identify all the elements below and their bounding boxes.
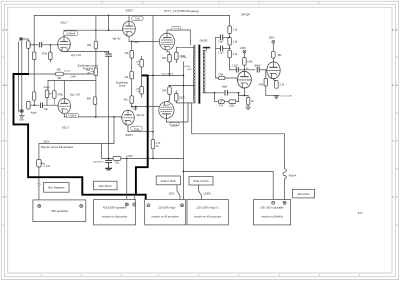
wire B+ to box4 left terminal bbox=[183, 171, 273, 201]
frame zone letters bbox=[2, 28, 398, 198]
svg-text:262V: 262V bbox=[134, 42, 140, 44]
wire to V4a anode node bbox=[239, 69, 255, 71]
svg-text:montée en 40 secondes: montée en 40 secondes bbox=[194, 215, 222, 219]
svg-text:475k: 475k bbox=[42, 53, 48, 56]
resistor R 90k on column bbox=[130, 50, 134, 58]
svg-text:24N2P: 24N2P bbox=[241, 13, 250, 17]
node connector marker bbox=[38, 183, 40, 185]
current label 0.56mA V1a bbox=[64, 31, 78, 36]
ground input2 bbox=[19, 116, 24, 118]
svg-text:v.carte C4M: v.carte C4M bbox=[280, 95, 292, 98]
svg-text:450 &500V ajustable: 450 &500V ajustable bbox=[103, 207, 127, 210]
node junction x95.7 on cathode row bbox=[95, 116, 97, 118]
svg-text:Push-Pull: Push-Pull bbox=[83, 68, 94, 71]
svg-text:475k: 475k bbox=[57, 94, 63, 97]
svg-text:5µF: 5µF bbox=[44, 109, 49, 111]
capacitor 680pF bbox=[257, 68, 259, 73]
svg-text:10R: 10R bbox=[162, 57, 167, 60]
svg-text:7mA: 7mA bbox=[134, 128, 139, 131]
svg-text:97A: 97A bbox=[358, 211, 363, 215]
thick wire highlighted path right branch bbox=[136, 75, 148, 194]
svg-text:0.56mA: 0.56mA bbox=[66, 32, 75, 35]
transformer T1 primary winding bbox=[193, 45, 195, 103]
svg-text:220 à 290V régul (-): 220 à 290V régul (-) bbox=[196, 207, 218, 210]
wire x215.7 compensation bbox=[215, 37, 217, 78]
wire PSU B+ center tap x183.4 bbox=[182, 62, 184, 199]
terminal box4 minus bbox=[272, 201, 275, 204]
wire secondary top to ground bbox=[203, 48, 206, 51]
wire 200R bottom leads bbox=[176, 91, 188, 103]
potentiometer P-in2 bbox=[27, 101, 31, 109]
svg-text:Polar K Push: Polar K Push bbox=[161, 179, 177, 183]
frame zone ticks bottom bbox=[41, 273, 360, 277]
resistor R 66k paraphase divider bbox=[93, 97, 97, 105]
tube V1a 6SL7 top triode bbox=[58, 37, 71, 52]
resistor R 65k anode load V1a bbox=[94, 41, 98, 49]
svg-text:206V: 206V bbox=[240, 47, 246, 50]
wire chain bottom to coupling row y69.8 bbox=[230, 69, 236, 71]
node junction anode rail / 65k column bbox=[95, 29, 97, 31]
terminal -45V box left bbox=[38, 204, 41, 207]
svg-text:475k: 475k bbox=[258, 83, 264, 86]
potentiometer Augm P1 bbox=[45, 90, 49, 98]
svg-text:6SL7: 6SL7 bbox=[62, 125, 69, 129]
wire bus y74 choke row bbox=[28, 73, 95, 75]
wire C10uF down to +470V rail bbox=[108, 57, 110, 159]
svg-text:27pF: 27pF bbox=[218, 41, 224, 43]
svg-text:C4M: C4M bbox=[71, 76, 76, 78]
svg-text:400mA: 400mA bbox=[289, 175, 297, 178]
resistor 2.7k 7W bbox=[151, 140, 155, 149]
node junction x34 on grid row bbox=[33, 44, 35, 46]
resistor 1.1k chain 1 bbox=[228, 26, 232, 34]
terminal box2 minus bbox=[147, 204, 150, 207]
ground chassis secondary bbox=[204, 47, 210, 49]
wire x38.9 down to pot 47k bbox=[38, 144, 40, 160]
resistor 470k grid V4a bbox=[219, 76, 226, 79]
wire rail to V2a grid bbox=[96, 29, 123, 31]
svg-text:66pF: 66pF bbox=[222, 87, 228, 89]
svg-text:7w: 7w bbox=[136, 64, 139, 66]
svg-text:10R: 10R bbox=[162, 90, 167, 93]
resistor Rd on x34 column lower bbox=[32, 92, 36, 100]
frame zone ticks left bbox=[1, 57, 4, 225]
wire screen mid y75.4 bbox=[148, 75, 195, 85]
svg-text:6SL7: 6SL7 bbox=[61, 21, 68, 25]
capacitor C-in2 coupling bbox=[40, 103, 42, 108]
wire long vertical x34.2 from top rail bbox=[33, 15, 35, 105]
wire x108.5 rail drop bbox=[108, 15, 110, 30]
resistor 200R screen top bbox=[175, 52, 179, 60]
potentiometer 4.7k bbox=[218, 100, 224, 104]
node chain junctions bbox=[229, 36, 231, 38]
potentiometer P2 80k equilibrage bbox=[94, 68, 98, 76]
tube V4b 24N2P right bbox=[267, 62, 281, 79]
svg-text:7w: 7w bbox=[136, 91, 139, 93]
capacitor 27pF lower bbox=[216, 47, 230, 49]
wire x95.9 column bbox=[95, 15, 97, 117]
svg-text:252V: 252V bbox=[132, 108, 138, 110]
wire primary tap to PSU x191.7 bbox=[192, 103, 285, 134]
node junction x131.7 y41.4 bbox=[131, 41, 133, 43]
svg-text:1.2µF: 1.2µF bbox=[232, 66, 239, 68]
box Alim Driver bbox=[93, 181, 117, 190]
wire 47k down to -45V box bbox=[38, 167, 40, 204]
node junction x50 on grid row bbox=[49, 44, 51, 46]
svg-text:100k: 100k bbox=[247, 60, 253, 63]
wire 10R bottom leads bbox=[167, 86, 170, 102]
wire cathode V1b row y116.9 bbox=[64, 114, 121, 117]
transformer T1 core bbox=[198, 45, 200, 104]
transformer T1 secondary winding bbox=[203, 50, 205, 93]
svg-text:7mA: 7mA bbox=[135, 18, 140, 21]
svg-text:220-290V régul: 220-290V régul bbox=[158, 207, 176, 210]
resistor 10R bottom bbox=[168, 87, 172, 95]
box -45V Ajustable bbox=[33, 200, 86, 222]
wire +470V rail y158.4 bbox=[102, 157, 184, 159]
wire grid row V1b y105.2 bbox=[30, 104, 57, 106]
wire 250V to 68k bbox=[272, 43, 274, 51]
current label 7mA V2b bbox=[131, 126, 143, 131]
svg-text:-45V Ajustable: -45V Ajustable bbox=[50, 209, 68, 213]
svg-text:1µF450Vdc: 1µF450Vdc bbox=[93, 161, 103, 163]
svg-text:7w: 7w bbox=[156, 145, 159, 148]
wire anode V1a to rail y29.7 bbox=[64, 30, 96, 36]
resistor R 475k V1b bbox=[53, 91, 57, 99]
box Polar K Push 2 bbox=[189, 177, 213, 185]
wire anode KT77b to transformer bottom bbox=[166, 103, 195, 122]
wire input1 to pot P-in1 bbox=[22, 39, 28, 41]
box PSU 220-290V regul bbox=[145, 200, 186, 225]
wire anode V1b up and left to x48 bbox=[48, 81, 96, 99]
svg-text:2.2k: 2.2k bbox=[280, 83, 285, 86]
svg-text:Signal moins Paraphase: Signal moins Paraphase bbox=[41, 145, 74, 149]
capacitor 1.2uF bbox=[236, 68, 238, 73]
wire 100k to anode node bbox=[243, 65, 245, 70]
ground of 1uF cap bbox=[106, 168, 112, 170]
node input 2 terminal bbox=[21, 110, 23, 112]
wire anode V2a to rail bbox=[128, 15, 130, 21]
svg-text:montée en (s)econdes: montée en (s)econdes bbox=[102, 215, 128, 219]
svg-text:-262V: -262V bbox=[43, 140, 50, 144]
svg-text:Swing: Swing bbox=[119, 85, 126, 88]
tube V3b KT77 bottom (inverted) bbox=[159, 102, 174, 119]
box Alim Push bbox=[292, 189, 314, 198]
wire anode KT77a to transformer bbox=[167, 30, 190, 45]
svg-text:Augm: Augm bbox=[43, 86, 49, 89]
node junction y74 x27.5 bbox=[27, 73, 29, 75]
potentiometer 47k bias bbox=[37, 159, 41, 167]
node input 1 terminal bbox=[20, 38, 22, 40]
resistor R 475k grid leak V1a bbox=[49, 52, 53, 60]
svg-text:1.1k: 1.1k bbox=[233, 40, 238, 43]
switch 252V to box2 bbox=[177, 185, 180, 200]
wire cathode V2a down to grid row KT77a bbox=[129, 37, 159, 42]
ground V4b cathode bbox=[274, 96, 279, 99]
svg-text:KT77_JJ (KT88 Shugang): KT77_JJ (KT88 Shugang) bbox=[164, 9, 199, 13]
tube V4a 24N2P left bbox=[237, 71, 251, 88]
wire 470k to grid V4a bbox=[216, 77, 238, 79]
svg-text:(376v): (376v) bbox=[184, 66, 190, 68]
resistor 200R screen bottom bbox=[174, 93, 178, 101]
resistor 475k grid leak V4b bbox=[265, 70, 267, 79]
wire stub to box1 minus bbox=[133, 195, 135, 203]
svg-text:250V: 250V bbox=[269, 36, 275, 39]
wire cathode V2b right to x153 bbox=[128, 125, 153, 131]
box PSU 500-550V ajustable bbox=[254, 200, 291, 225]
box Polar K Push 1 bbox=[156, 176, 180, 185]
svg-text:30mA: 30mA bbox=[173, 28, 179, 31]
svg-text:0.56mA: 0.56mA bbox=[68, 115, 77, 118]
capacitor 27pF upper bbox=[216, 36, 230, 38]
wire paraphase y143.6 bbox=[39, 117, 114, 158]
wire cathode KT77a to 10R bbox=[167, 50, 170, 55]
svg-text:20H: 20H bbox=[57, 70, 62, 72]
resistor 10R top bbox=[168, 54, 172, 62]
current label 30mA KT77b bbox=[170, 122, 179, 126]
svg-text:Alim Negative: Alim Negative bbox=[48, 186, 65, 190]
current label 7mA V2a bbox=[132, 16, 144, 21]
feedback loop lower branch bbox=[215, 93, 239, 102]
box PSU 450&500V ajustable bbox=[94, 200, 136, 225]
svg-text:30mA: 30mA bbox=[172, 123, 178, 126]
wire B+ top rail y15.4 bbox=[34, 14, 229, 16]
svg-text:Vgk -1,6V: Vgk -1,6V bbox=[70, 94, 81, 96]
wire input2 to ground bbox=[21, 112, 23, 115]
terminal box2 plus bbox=[181, 204, 184, 207]
frame zone ticks right bbox=[395, 57, 398, 225]
svg-text:220k: 220k bbox=[229, 106, 235, 108]
svg-text:(376v): (376v) bbox=[181, 57, 187, 59]
tube V3a KT77 top bbox=[159, 33, 174, 50]
terminal box4 plus bbox=[283, 201, 286, 204]
tube V2b 6SN7 bottom triode bbox=[122, 110, 135, 125]
box Alim Negative bbox=[44, 182, 70, 192]
svg-text:252V: 252V bbox=[169, 192, 175, 195]
svg-text:470k: 470k bbox=[218, 75, 224, 77]
resistor Rc on x34 column upper bbox=[32, 52, 36, 60]
svg-text:1.1k: 1.1k bbox=[233, 29, 238, 32]
resistor 220k bbox=[229, 100, 236, 104]
wire vertical bus x21.8 input link bbox=[21, 41, 23, 111]
wire x153 screen supply column bbox=[152, 15, 154, 158]
resistor 68k anode load V4b bbox=[272, 51, 276, 58]
frame zone ticks top bbox=[102, 1, 319, 4]
wire cathode V4a to 9k bbox=[247, 95, 249, 97]
svg-text:Alim Push: Alim Push bbox=[297, 192, 310, 196]
svg-text:montée en 40 secondes: montée en 40 secondes bbox=[152, 215, 180, 219]
svg-text:680pF: 680pF bbox=[254, 66, 261, 68]
svg-text:1.1k: 1.1k bbox=[233, 53, 238, 56]
wire x131.7 equalizer column bbox=[131, 41, 133, 106]
capacitor 66pF series bbox=[225, 91, 227, 96]
node junction y74 x21.5 bbox=[21, 73, 23, 75]
svg-text:DA029: DA029 bbox=[200, 40, 208, 43]
current label 30mA KT77a bbox=[172, 27, 181, 31]
resistor 9k cathode bbox=[246, 97, 250, 105]
svg-text:Alim Driver: Alim Driver bbox=[99, 184, 112, 188]
thick wire highlighted path left branch bbox=[14, 74, 146, 202]
resistor 1k5 7W upper bbox=[140, 59, 144, 67]
wire grid V1a row y44.8 bbox=[31, 44, 57, 46]
node junction x114 on cathode row bbox=[113, 116, 115, 118]
node junction x34.7 y105.2 bbox=[34, 104, 36, 106]
terminal box1 minus bbox=[133, 203, 136, 206]
wire 206V to 100k bbox=[243, 53, 245, 58]
current label 0.56mA V1b bbox=[66, 113, 78, 117]
svg-text:Vgk -6V: Vgk -6V bbox=[136, 115, 145, 117]
wire 475k bottom to ground row bbox=[266, 86, 277, 96]
capacitor C-in1 coupling bbox=[40, 43, 42, 48]
wire anode V2b up to grid row bbox=[135, 107, 137, 111]
ground 9k bbox=[246, 107, 251, 109]
svg-text:27pF: 27pF bbox=[218, 52, 224, 54]
wire rail corner down x229.6 bbox=[229, 15, 231, 69]
wire +470V drop to box1 plus bbox=[126, 158, 128, 202]
svg-text:Sym: Sym bbox=[19, 119, 24, 121]
svg-text:Polar K Push: Polar K Push bbox=[193, 179, 209, 183]
svg-text:Augm: Augm bbox=[31, 111, 37, 114]
potentiometer P-in1 volume top bbox=[27, 41, 31, 49]
resistor 1.1k chain 2 bbox=[228, 38, 232, 46]
wire secondary bottom to feedback bbox=[203, 92, 214, 94]
wire vertical x18.4 bbox=[18, 42, 20, 111]
svg-text:Vgk -1,6V: Vgk -1,6V bbox=[71, 55, 82, 57]
wire grid row KT77b y106.5 bbox=[132, 106, 159, 108]
resistor 100k bbox=[243, 58, 247, 66]
wire 68k to anode V4b bbox=[272, 58, 274, 62]
wire HT via fuse to box4 right terminal bbox=[284, 134, 286, 201]
svg-text:500- 550 V ajustable: 500- 550 V ajustable bbox=[261, 207, 285, 210]
wire 9k to ground bbox=[247, 105, 249, 107]
inductor choke 20H bbox=[55, 72, 63, 76]
svg-text:montée en 50s/40s: montée en 50s/40s bbox=[261, 215, 283, 219]
svg-text:(-)250V: (-)250V bbox=[203, 192, 211, 195]
svg-text:welche: welche bbox=[64, 70, 71, 72]
resistor 1.1k chain 3 bbox=[228, 50, 232, 58]
wire 680pF to V4b grid bbox=[260, 69, 266, 71]
tube V1b 6SL7 bottom triode bbox=[58, 99, 71, 114]
resistor R 22k on column bbox=[130, 71, 134, 79]
node junction x131.7 y106.5 bbox=[131, 106, 133, 108]
svg-text:6SN7: 6SN7 bbox=[126, 9, 134, 13]
wire 10R top down to y75.4 bbox=[169, 62, 171, 75]
resistor R 66k on column bbox=[130, 96, 134, 104]
fuse 400mA bbox=[283, 168, 286, 181]
svg-text:6SN7: 6SN7 bbox=[125, 133, 133, 137]
resistor 10k on rail bbox=[113, 156, 121, 160]
wire pot P-in1 bottom down to bus y74 bbox=[27, 48, 29, 74]
svg-text:200R: 200R bbox=[179, 96, 185, 99]
svg-text:252v (367V): 252v (367V) bbox=[161, 73, 173, 75]
wire 200R top leads bbox=[176, 47, 195, 62]
wire x141.6 bias column bbox=[141, 56, 143, 97]
wire cathode V1a to C 10uF bbox=[64, 50, 109, 52]
terminal box1 plus bbox=[125, 203, 128, 206]
box PSU 220 a 290V regul bbox=[187, 200, 228, 225]
terminal -45V box right bbox=[80, 204, 83, 207]
resistor 2.2k cathode V4b bbox=[275, 81, 279, 89]
wire feedback row y92.8 bbox=[205, 88, 248, 96]
svg-text:Vgk -6V: Vgk -6V bbox=[112, 39, 121, 41]
tube V2a 6SN7 top triode bbox=[123, 21, 136, 36]
switch (-)250V to box3 bbox=[199, 185, 202, 199]
wire grid row y41.4 to KT77a bbox=[132, 40, 159, 42]
resistor 1k5 7W lower bbox=[140, 86, 144, 94]
wire cathode V4b to 2.2k bbox=[274, 78, 277, 81]
